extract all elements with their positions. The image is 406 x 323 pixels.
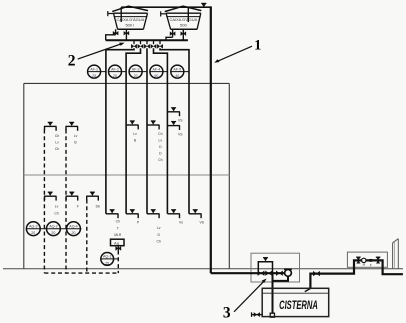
svg-text:Db: Db (96, 205, 100, 209)
svg-text:T: T (117, 226, 119, 230)
svg-text:Vs: Vs (179, 221, 183, 225)
svg-text:Ch: Ch (55, 147, 59, 151)
svg-text:CISTERNA: CISTERNA (279, 300, 318, 312)
svg-text:Ch: Ch (54, 212, 58, 216)
svg-text:Lv: Lv (133, 132, 137, 136)
svg-text:Aq: Aq (114, 241, 119, 246)
svg-text:AQ-3: AQ-3 (29, 225, 37, 229)
svg-text:Ch: Ch (158, 132, 162, 136)
svg-text:2: 2 (68, 52, 76, 69)
svg-text:3: 3 (223, 305, 231, 322)
svg-text:20: 20 (72, 231, 76, 235)
svg-text:500 l: 500 l (125, 23, 134, 28)
svg-text:AF-1: AF-1 (90, 67, 98, 71)
svg-text:Lv: Lv (55, 140, 59, 144)
svg-text:AQ-4: AQ-4 (69, 225, 77, 229)
svg-text:F: F (77, 205, 79, 209)
svg-text:F: F (370, 263, 372, 267)
svg-text:25: 25 (92, 74, 96, 78)
svg-text:25: 25 (105, 261, 109, 265)
svg-text:1: 1 (254, 37, 261, 53)
svg-text:40: 40 (175, 74, 179, 78)
svg-text:CAIXA D'ÁGUA: CAIXA D'ÁGUA (169, 17, 197, 22)
svg-text:AF-3: AF-3 (132, 67, 140, 71)
svg-text:AF-4: AF-4 (153, 67, 161, 71)
svg-text:Ch: Ch (157, 240, 161, 244)
svg-text:AF-5: AF-5 (173, 67, 181, 71)
svg-text:20: 20 (51, 231, 55, 235)
svg-text:AQ-1: AQ-1 (103, 255, 111, 259)
svg-text:AQ-2: AQ-2 (49, 225, 57, 229)
svg-text:20: 20 (31, 231, 35, 235)
svg-text:20: 20 (134, 74, 138, 78)
svg-text:VS: VS (178, 133, 183, 137)
svg-text:20: 20 (113, 74, 117, 78)
svg-text:VS: VS (178, 119, 183, 123)
svg-text:Ch: Ch (55, 134, 59, 138)
svg-text:Lv: Lv (157, 226, 161, 230)
svg-text:Lv: Lv (74, 134, 78, 138)
svg-text:Ch: Ch (158, 158, 162, 162)
svg-text:Lv: Lv (159, 139, 163, 143)
svg-text:50: 50 (154, 74, 158, 78)
svg-text:500: 500 (180, 23, 187, 28)
svg-text:AF-2: AF-2 (111, 67, 119, 71)
svg-text:Lv: Lv (55, 205, 59, 209)
svg-text:MLR: MLR (114, 233, 122, 237)
svg-text:VS: VS (200, 221, 205, 225)
svg-text:Ch: Ch (116, 220, 120, 224)
